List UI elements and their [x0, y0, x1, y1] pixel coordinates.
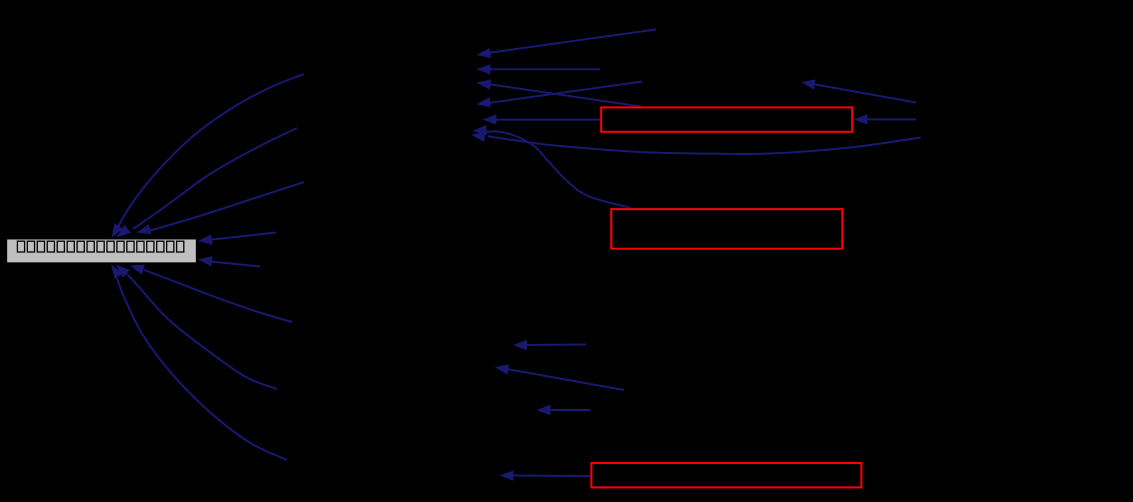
arrowhead R3: [470, 129, 486, 142]
wire M4: horizontal edge from red box 3 left edge: [511, 475, 591, 478]
wire g4: short edge into grey node right edge (upper): [210, 233, 276, 240]
wire R2: horizontal edge into red box 1 right edge: [865, 118, 916, 120]
wire g2: curved edge into grey node top (middle): [133, 128, 297, 229]
arrowhead M4: [499, 470, 513, 481]
arrowhead B3: [107, 262, 124, 279]
wire A4: crossing edge into invisible middle-column node: [488, 82, 642, 104]
node: current file (grey box): [7, 239, 197, 263]
arrowhead A1: [476, 48, 491, 60]
wire A2: horizontal edge into invisible middle-column node: [488, 68, 600, 70]
wire g1: curved edge into grey node top (steep): [117, 74, 304, 229]
arrowhead A4: [476, 97, 491, 109]
arrowhead M1: [513, 340, 527, 351]
arrowhead M3: [537, 405, 551, 415]
arrowhead g5: [197, 254, 212, 266]
arrowhead M2: [494, 362, 510, 375]
arrowhead B1: [128, 261, 144, 275]
arrowhead g3: [135, 224, 151, 237]
arrowhead R2: [854, 114, 868, 124]
arrowhead A6: [472, 125, 487, 136]
arrowhead g2: [113, 225, 130, 242]
node: red box 1 (linked file): [601, 107, 852, 131]
arrowhead g4: [197, 234, 212, 246]
wire A3: edge from red box 1 top edge, crossing: [488, 84, 641, 106]
wire g3: gently curved edge into grey node top (shallow): [148, 182, 304, 231]
label: 17 tofu glyph boxes in grey node: [17, 241, 183, 252]
wire B2: curved edge into grey node bottom (middle): [127, 274, 277, 389]
wire M3: short horizontal edge into invisible node (lower middle 3): [548, 409, 591, 411]
arrowhead B2: [113, 261, 130, 278]
wire M2: slanted edge into invisible node (lower middle 2): [506, 369, 624, 390]
arrowhead A5: [483, 114, 497, 124]
wire M1: horizontal edge into invisible node (lower middle 1): [524, 344, 586, 347]
wire R3: long sagging edge from right column into arrow cluster: [488, 136, 921, 154]
wire B3: curved edge into grey node bottom (steep): [117, 278, 287, 460]
wire B1: curved edge into grey node bottom (shallow): [144, 270, 292, 322]
node: red box 2 (linked file, two-line label): [611, 209, 842, 249]
wire R1: slanted edge from right column (top right): [812, 84, 916, 103]
wire A5: horizontal edge from red box 1 left edge: [494, 119, 600, 121]
arrowhead A3: [476, 77, 491, 89]
wire g5: short edge into grey node right edge (lower): [211, 262, 260, 267]
arrowhead R1: [800, 77, 816, 90]
arrowhead g1: [107, 223, 123, 240]
arrowhead A2: [477, 64, 491, 74]
wire A6: swoopy edge from red box 2 top-left corner: [486, 131, 631, 208]
node: red box 3 (linked file): [591, 463, 861, 487]
wire A1: edge into invisible middle-column node (topmost): [488, 30, 656, 53]
